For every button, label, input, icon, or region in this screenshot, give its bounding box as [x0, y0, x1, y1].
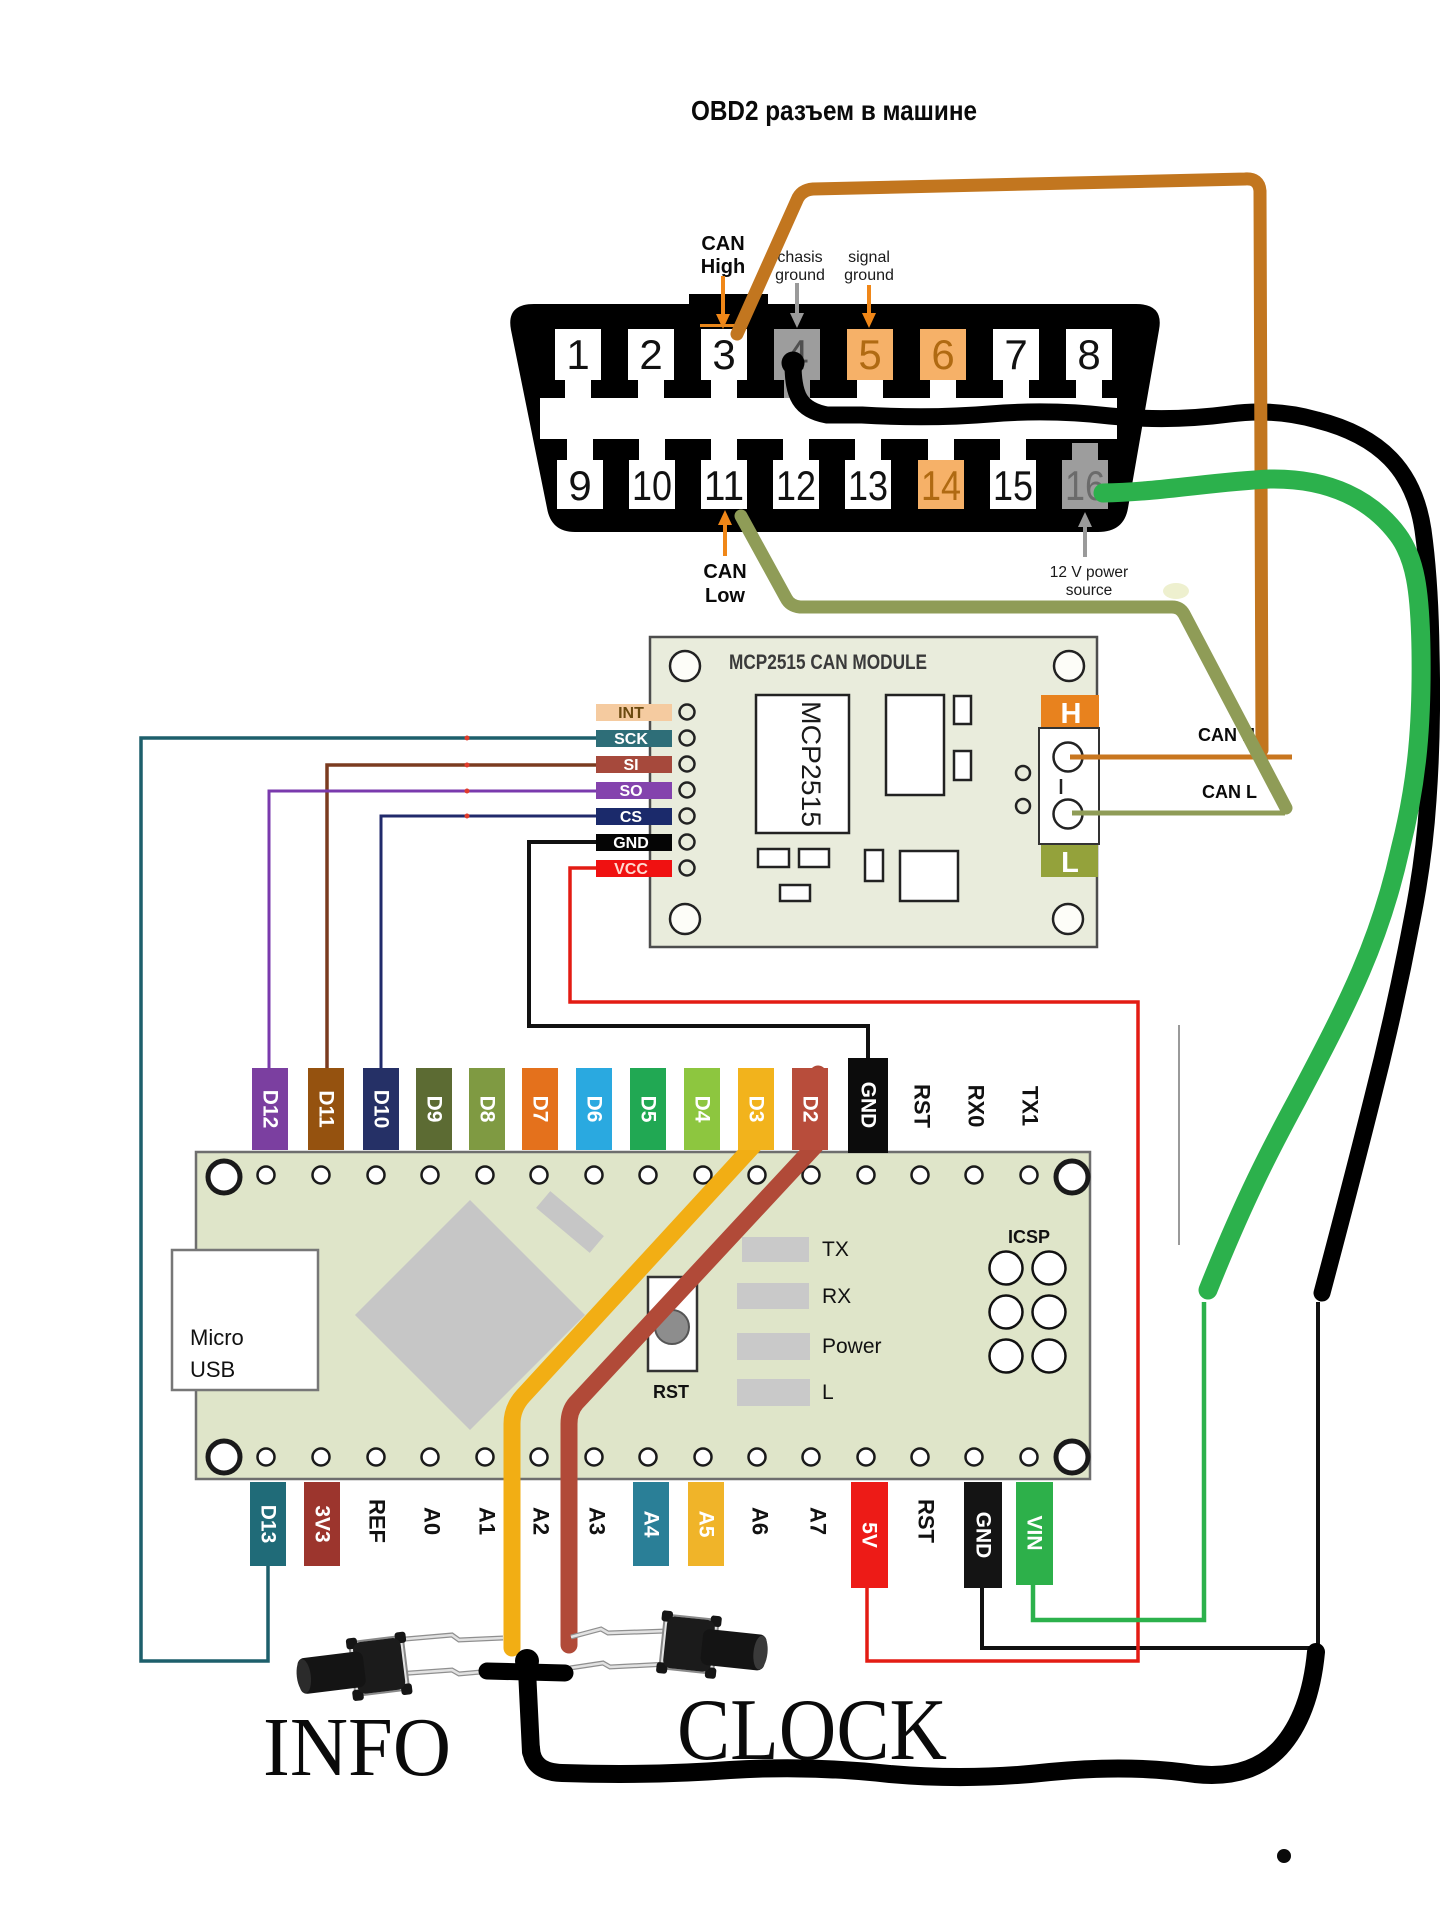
svg-text:SO: SO	[619, 783, 642, 800]
jumper hole J3	[1016, 799, 1030, 813]
pin 1	[555, 329, 601, 398]
svg-text:A3: A3	[585, 1507, 610, 1535]
wire SCK to D13 (teal loop)	[141, 738, 596, 1661]
ground bar between buttons	[487, 1671, 565, 1673]
pin label 3V3	[304, 1482, 340, 1566]
svg-text:REF: REF	[365, 1499, 390, 1543]
svg-text:VCC: VCC	[614, 861, 648, 878]
wire D3 yellow lower part	[504, 1430, 521, 1648]
label signal ground	[844, 249, 894, 284]
pin label D8	[469, 1068, 505, 1150]
wire CAN L terminal lead (olive thin)	[1072, 811, 1285, 816]
pin label INT	[596, 704, 672, 721]
svg-text:D10: D10	[370, 1090, 393, 1129]
wire CS to D10 (navy)	[381, 816, 596, 1068]
pin 13	[845, 439, 891, 509]
corner hole bottom-right	[1056, 1441, 1088, 1473]
pin label D12	[252, 1068, 288, 1150]
svg-text:A4: A4	[640, 1511, 663, 1538]
stray dot bottom right	[1277, 1849, 1291, 1863]
pin label D5	[630, 1068, 666, 1150]
arrow to pin 16 (gray, up)	[1078, 512, 1092, 557]
capacitor C3	[865, 850, 883, 881]
svg-text:D2: D2	[799, 1096, 822, 1123]
pin label D6	[576, 1068, 612, 1150]
label 12 V power source	[1050, 564, 1128, 599]
pin label SI	[596, 756, 672, 773]
svg-text:RST: RST	[653, 1382, 689, 1402]
pin label D2	[792, 1068, 828, 1150]
svg-text:D6: D6	[583, 1096, 606, 1123]
pin 14	[918, 439, 964, 509]
pin 11 CAN low	[701, 439, 747, 509]
pin 4 chassis ground	[774, 329, 820, 398]
pin 10	[629, 439, 675, 509]
wire CAN H terminal lead (orange thin)	[1070, 755, 1292, 760]
pin label D4	[684, 1068, 720, 1150]
corner hole top-right	[1056, 1161, 1088, 1193]
pin label A4	[633, 1482, 669, 1566]
stray gray line	[1178, 1025, 1180, 1245]
terminal label H	[1041, 695, 1099, 728]
transceiver U3	[900, 851, 958, 901]
svg-text:SI: SI	[623, 757, 638, 774]
svg-text:MCP2515: MCP2515	[796, 701, 826, 827]
pin 6	[920, 329, 966, 398]
pin 8	[1066, 329, 1112, 398]
MCU chip (diamond)	[355, 1200, 585, 1430]
pin label GND bottom	[964, 1482, 1002, 1588]
svg-text:8: 8	[1077, 331, 1100, 378]
resistor R1	[758, 849, 789, 867]
svg-text:A0: A0	[420, 1507, 445, 1535]
svg-text:OBD2 разъем в машине: OBD2 разъем в машине	[691, 95, 977, 126]
pin label 5V	[851, 1482, 888, 1588]
terminal screw L	[1054, 800, 1083, 829]
Micro USB connector	[172, 1250, 318, 1390]
wire SO to D12 (purple)	[269, 791, 596, 1068]
corner hole bottom-left	[208, 1441, 240, 1473]
svg-text:RST: RST	[910, 1084, 935, 1129]
connector J1 body	[510, 304, 1160, 532]
LED TX	[742, 1237, 809, 1262]
svg-text:GND: GND	[972, 1512, 995, 1559]
svg-text:A7: A7	[806, 1507, 831, 1535]
pin label D7	[522, 1068, 558, 1150]
svg-text:3V3: 3V3	[311, 1505, 334, 1542]
ground junction blob	[515, 1649, 539, 1673]
svg-text:D4: D4	[691, 1096, 714, 1123]
wire D2 to CLOCK button (dark red)	[569, 1074, 818, 1642]
svg-text:5V: 5V	[858, 1522, 881, 1548]
svg-text:A2: A2	[529, 1507, 554, 1535]
wire VCC to 5V (red)	[570, 868, 1138, 1661]
LED RX	[737, 1283, 809, 1309]
module U2 board	[650, 637, 1097, 947]
bottom pin holes	[258, 1449, 1038, 1466]
svg-text:D5: D5	[637, 1096, 660, 1123]
svg-text:RX: RX	[822, 1285, 851, 1308]
pin label VIN	[1016, 1482, 1053, 1585]
resistor R2	[799, 849, 829, 867]
svg-text:ground: ground	[775, 267, 825, 284]
svg-text:11: 11	[704, 462, 744, 509]
svg-text:INFO: INFO	[263, 1701, 451, 1794]
label CAN Low	[703, 561, 746, 607]
terminal block TB1	[1039, 728, 1099, 844]
svg-text:CLOCK: CLOCK	[677, 1682, 947, 1779]
svg-text:L: L	[822, 1381, 834, 1404]
svg-text:D13: D13	[257, 1505, 280, 1544]
svg-text:source: source	[1066, 582, 1113, 599]
wire buttons ground to OBD ground (thick black freehand bottom)	[531, 1652, 1316, 1777]
wire D2 dark red lower part	[561, 1430, 578, 1645]
terminal divider	[1060, 779, 1063, 794]
pin channel	[540, 398, 1117, 439]
ICSP holes	[990, 1252, 1066, 1373]
pin label GND	[596, 834, 672, 851]
wire MCP GND to Arduino GND (black)	[529, 842, 868, 1058]
wire pin16 12V (green thick freehand)	[1103, 479, 1421, 1290]
wire D3 to INFO button (yellow)	[512, 1093, 753, 1641]
svg-text:chasis: chasis	[777, 249, 822, 266]
pin label CS	[596, 808, 672, 825]
pin 16 12V	[1062, 443, 1108, 509]
label chasis ground	[775, 249, 825, 284]
svg-text:6: 6	[931, 331, 954, 378]
pin label GND top	[848, 1058, 888, 1153]
ground stub down	[527, 1670, 531, 1752]
svg-text:A6: A6	[748, 1507, 773, 1535]
chassis ground blob on pin 4	[782, 352, 805, 375]
pin 2	[628, 329, 674, 398]
pin 3	[701, 329, 747, 398]
mounting hole bottom-left	[670, 904, 700, 934]
svg-text:TX: TX	[822, 1238, 849, 1261]
label CAN High	[701, 233, 745, 278]
Arduino Nano board	[196, 1152, 1090, 1479]
CLOCK button SW3	[570, 1610, 771, 1684]
pin label D9	[416, 1068, 452, 1150]
RST button SW1	[648, 1277, 697, 1371]
svg-text:10: 10	[632, 462, 672, 509]
svg-text:ICSP: ICSP	[1008, 1227, 1050, 1247]
wire OBD ground (thick black freehand)	[793, 363, 1432, 1293]
wire OBD ground to Arduino GND bottom (black thin)	[982, 1302, 1318, 1648]
svg-text:CAN: CAN	[701, 233, 744, 255]
pin label D11	[308, 1068, 344, 1150]
capacitor C1	[954, 696, 971, 724]
svg-text:ground: ground	[844, 267, 894, 284]
pin label VCC	[596, 860, 672, 877]
svg-text:RST: RST	[914, 1499, 939, 1544]
pin label SO	[596, 782, 672, 799]
pin label A5	[688, 1482, 724, 1566]
corner hole top-left	[208, 1161, 240, 1193]
svg-text:High: High	[701, 256, 745, 278]
arrow to pin 5 (orange)	[862, 285, 876, 328]
svg-text:CS: CS	[620, 809, 643, 826]
junction dot CS	[465, 814, 470, 819]
small smd chip	[536, 1191, 604, 1253]
pin 12	[773, 439, 819, 509]
junction dot SI	[465, 763, 470, 768]
junction dot SCK	[465, 736, 470, 741]
mounting hole bottom-right	[1053, 904, 1083, 934]
pin label D13	[250, 1482, 286, 1566]
svg-text:15: 15	[993, 462, 1033, 509]
svg-text:VIN: VIN	[1023, 1515, 1046, 1550]
arrow to pin 3 (orange)	[716, 276, 730, 329]
svg-text:RX0: RX0	[964, 1085, 989, 1128]
svg-text:D8: D8	[476, 1096, 499, 1123]
top pin holes	[258, 1167, 1038, 1184]
svg-text:D7: D7	[529, 1096, 552, 1123]
svg-text:12 V power: 12 V power	[1050, 564, 1128, 581]
svg-text:5: 5	[858, 331, 881, 378]
INFO button SW2	[293, 1631, 503, 1707]
svg-text:CAN L: CAN L	[1202, 782, 1257, 802]
terminal screw H	[1054, 743, 1083, 772]
svg-text:GND: GND	[613, 835, 649, 852]
pin label D10	[363, 1068, 399, 1150]
mounting hole top-right	[1054, 651, 1084, 681]
pin 15	[990, 439, 1036, 509]
svg-text:2: 2	[639, 331, 662, 378]
svg-text:signal: signal	[848, 249, 890, 266]
pin 5 signal ground	[847, 329, 893, 398]
svg-text:H: H	[1061, 698, 1082, 730]
arrow to pin 11 (orange, up)	[718, 510, 732, 556]
crystal Y1	[886, 695, 944, 795]
svg-text:SCK: SCK	[614, 731, 648, 748]
pin label SCK	[596, 730, 672, 747]
capacitor C2	[954, 751, 971, 780]
pin 7	[993, 329, 1039, 398]
svg-text:7: 7	[1004, 331, 1027, 378]
junction dot SO	[465, 789, 470, 794]
pin holes INT..VCC	[680, 705, 695, 876]
svg-text:CAN: CAN	[703, 561, 746, 583]
jumper hole J2	[1016, 766, 1030, 780]
svg-text:INT: INT	[618, 705, 644, 722]
svg-text:MCP2515 CAN MODULE: MCP2515 CAN MODULE	[729, 651, 927, 674]
terminal label L	[1041, 845, 1098, 877]
wire 12V to VIN (green thin)	[1033, 1302, 1204, 1620]
orange mark on pin 3	[700, 324, 747, 327]
svg-text:TX1: TX1	[1018, 1086, 1043, 1126]
svg-text:14: 14	[921, 462, 961, 509]
svg-text:12: 12	[776, 462, 816, 509]
highlight on olive wire bend	[1163, 583, 1189, 599]
mounting hole top-left	[670, 651, 700, 681]
svg-text:Low: Low	[705, 585, 745, 607]
wire SI to D11 (brown)	[327, 765, 596, 1068]
svg-text:USB: USB	[190, 1357, 235, 1382]
svg-text:1: 1	[566, 331, 589, 378]
pin 9	[557, 439, 603, 509]
pin label D3	[738, 1068, 774, 1150]
wire pin3 to CAN H (orange thick)	[737, 179, 1262, 750]
svg-text:A1: A1	[475, 1507, 500, 1535]
svg-text:D12: D12	[259, 1090, 282, 1129]
LED L	[737, 1379, 810, 1406]
svg-text:D3: D3	[745, 1096, 768, 1123]
svg-text:13: 13	[848, 462, 888, 509]
connector J1 top tab	[689, 294, 768, 308]
svg-text:A5: A5	[695, 1511, 718, 1538]
svg-text:Power: Power	[822, 1335, 882, 1358]
svg-text:Micro: Micro	[190, 1325, 244, 1350]
svg-text:9: 9	[568, 462, 591, 509]
svg-text:D11: D11	[315, 1090, 338, 1128]
resistor R3	[780, 885, 810, 901]
svg-text:D9: D9	[423, 1096, 446, 1123]
chip U2 MCP2515	[756, 695, 849, 833]
arrow to pin 4 (gray)	[790, 283, 804, 328]
svg-text:L: L	[1061, 847, 1079, 879]
svg-text:GND: GND	[857, 1082, 880, 1129]
LED Power	[737, 1333, 810, 1360]
wire pin11 to CAN L (olive thick)	[741, 516, 1286, 808]
